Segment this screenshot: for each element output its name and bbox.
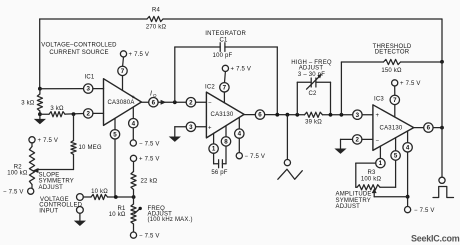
svg-text:IC1: IC1 bbox=[85, 75, 95, 81]
terminal +7.5V (22k top) bbox=[130, 155, 159, 162]
terminal square output bbox=[439, 128, 445, 184]
label Io current bbox=[150, 91, 165, 105]
svg-text:*: * bbox=[132, 95, 135, 104]
node M bbox=[440, 126, 444, 130]
svg-text:CA3080A: CA3080A bbox=[107, 100, 134, 106]
svg-text:+ 7.5 V: + 7.5 V bbox=[129, 52, 150, 58]
pin 6 output (IC1) bbox=[141, 98, 186, 107]
svg-text:6: 6 bbox=[152, 99, 156, 106]
svg-text:− 7.5 V: − 7.5 V bbox=[139, 233, 160, 239]
node N bbox=[406, 195, 410, 199]
label integrator bbox=[205, 31, 246, 44]
svg-text:− 7.5 V: − 7.5 V bbox=[414, 208, 435, 214]
pin 2 (IC1) bbox=[84, 109, 104, 118]
svg-text:SeekIC.com: SeekIC.com bbox=[411, 233, 460, 243]
svg-text:ADJUST: ADJUST bbox=[39, 185, 64, 191]
svg-text:IC2: IC2 bbox=[205, 85, 215, 91]
potentiometer R3 100k bbox=[356, 170, 408, 197]
svg-text:ADJUST: ADJUST bbox=[336, 204, 361, 210]
pin 5 (IC3) bbox=[380, 138, 400, 188]
pin 4 (IC3) bbox=[403, 131, 412, 206]
terminal +7.5V (IC3 pin7) bbox=[392, 80, 421, 95]
svg-text:− 7.5 V: − 7.5 V bbox=[139, 141, 160, 147]
svg-text:1: 1 bbox=[379, 160, 383, 167]
svg-text:150 kΩ: 150 kΩ bbox=[381, 68, 402, 74]
pin 2 (IC3) bbox=[341, 135, 373, 144]
op-amp IC3 CA3130 bbox=[373, 97, 414, 151]
svg-text:10 kΩ: 10 kΩ bbox=[109, 212, 126, 218]
svg-text:2: 2 bbox=[189, 99, 193, 106]
svg-text:1: 1 bbox=[212, 146, 216, 153]
node K bbox=[340, 113, 344, 117]
node C bbox=[72, 112, 76, 116]
pin 7 (IC2) bbox=[220, 83, 229, 103]
op-amp IC2 CA3130 bbox=[205, 85, 244, 138]
svg-text:CURRENT SOURCE: CURRENT SOURCE bbox=[49, 50, 108, 56]
node E bbox=[114, 195, 118, 199]
node B bbox=[38, 112, 42, 116]
svg-text:100 kΩ: 100 kΩ bbox=[7, 170, 28, 176]
svg-text:SYMMETRY: SYMMETRY bbox=[336, 198, 372, 204]
svg-text:3: 3 bbox=[189, 124, 193, 131]
svg-text:−: − bbox=[376, 138, 380, 144]
op-amp IC1 CA3080A bbox=[85, 75, 142, 126]
terminal -7.5V (R1 bottom) bbox=[130, 232, 159, 239]
node A bbox=[38, 87, 42, 91]
pin 4 (IC1) bbox=[129, 107, 138, 140]
svg-text:7: 7 bbox=[223, 84, 227, 91]
resistor R4 270k bbox=[146, 8, 167, 31]
svg-text:(100 kHz MAX.): (100 kHz MAX.) bbox=[148, 217, 193, 223]
terminal input ground reference bbox=[77, 207, 84, 221]
terminal +7.5V (R2 top) bbox=[29, 137, 58, 144]
pin 4 (IC2) bbox=[235, 118, 244, 153]
ground bbox=[75, 221, 86, 226]
svg-text:22 kΩ: 22 kΩ bbox=[141, 179, 158, 185]
svg-text:8: 8 bbox=[224, 139, 228, 146]
svg-text:−: − bbox=[208, 101, 212, 107]
svg-text:SLOPE: SLOPE bbox=[39, 173, 60, 179]
svg-text:5: 5 bbox=[113, 131, 117, 138]
svg-text:6: 6 bbox=[427, 125, 431, 132]
pin 5 (IC1) bbox=[110, 119, 119, 197]
svg-text:C2: C2 bbox=[308, 91, 317, 97]
node H bbox=[286, 113, 290, 117]
svg-text:+ 7.5 V: + 7.5 V bbox=[38, 138, 59, 144]
svg-text:CA3130: CA3130 bbox=[380, 126, 403, 132]
svg-text:100 pF: 100 pF bbox=[213, 53, 233, 59]
potentiometer R2 100k bbox=[7, 143, 34, 188]
wire top feedback rail bbox=[40, 18, 442, 20]
svg-text:R4: R4 bbox=[152, 8, 161, 14]
svg-text:+ 7.5 V: + 7.5 V bbox=[231, 67, 252, 73]
triangle wave symbol bbox=[278, 169, 303, 179]
svg-text:DETECTOR: DETECTOR bbox=[375, 50, 410, 56]
resistor 22k bbox=[131, 162, 158, 205]
svg-text:− 7.5 V: − 7.5 V bbox=[3, 190, 24, 196]
label freq adjust bbox=[148, 206, 193, 223]
terminal -7.5V (IC3 pin4) bbox=[405, 207, 435, 214]
label threshold detector bbox=[373, 44, 412, 56]
node D (C1 tap) bbox=[173, 100, 177, 104]
resistor 3k horizontal bbox=[40, 106, 84, 117]
svg-text:+: + bbox=[376, 113, 380, 119]
svg-text:3 kΩ: 3 kΩ bbox=[50, 106, 64, 112]
svg-text:7: 7 bbox=[121, 68, 125, 75]
pin 7 (IC1) bbox=[118, 66, 127, 90]
svg-text:6: 6 bbox=[258, 112, 262, 119]
resistor 10 MEG bbox=[71, 114, 102, 169]
svg-text:INPUT: INPUT bbox=[39, 208, 58, 214]
terminal -7.5V (R2 bottom) bbox=[3, 188, 34, 196]
pin 2 (IC2) bbox=[186, 98, 206, 107]
svg-text:4: 4 bbox=[238, 131, 242, 138]
svg-text:10 MEG: 10 MEG bbox=[79, 145, 102, 151]
pin 3 (IC1) bbox=[84, 84, 104, 93]
svg-text:+ 7.5 V: + 7.5 V bbox=[400, 81, 421, 87]
pin 3 (IC2) bbox=[175, 122, 207, 131]
terminal -7.5V (IC1 pin4) bbox=[130, 140, 159, 147]
terminal triangle output bbox=[284, 115, 290, 166]
svg-text:10 kΩ: 10 kΩ bbox=[91, 189, 108, 195]
ground bbox=[335, 139, 346, 153]
pin 8 (IC2) bbox=[221, 126, 230, 164]
node I bbox=[295, 113, 299, 117]
label amplitude symmetry adjust bbox=[336, 192, 372, 210]
svg-text:7: 7 bbox=[393, 97, 397, 104]
svg-text:2: 2 bbox=[86, 111, 90, 118]
svg-text:SYMMETRY: SYMMETRY bbox=[39, 179, 75, 185]
svg-text:CA3130: CA3130 bbox=[211, 112, 234, 118]
svg-text:I: I bbox=[150, 91, 152, 98]
node G bbox=[275, 113, 279, 117]
svg-text:4: 4 bbox=[406, 144, 410, 151]
node L bbox=[440, 60, 444, 64]
terminal voltage controlled input bbox=[39, 194, 83, 215]
pin 1 (IC3) bbox=[356, 146, 385, 187]
svg-text:IC3: IC3 bbox=[374, 97, 384, 103]
capacitor 56pF bbox=[211, 160, 227, 176]
svg-text:INTEGRATOR: INTEGRATOR bbox=[205, 31, 246, 37]
svg-text:− 7.5 V: − 7.5 V bbox=[245, 154, 266, 160]
pin 1 (IC2) bbox=[209, 133, 219, 164]
svg-text:39 kΩ: 39 kΩ bbox=[305, 120, 322, 126]
svg-text:5: 5 bbox=[394, 153, 398, 160]
label voltage-controlled current source bbox=[41, 43, 117, 57]
svg-text:3: 3 bbox=[86, 86, 90, 93]
pin 6 output (IC3) bbox=[414, 123, 442, 132]
resistor 39k bbox=[305, 112, 353, 125]
svg-text:O: O bbox=[153, 93, 157, 98]
svg-text:VOLTAGE–CONTROLLED: VOLTAGE–CONTROLLED bbox=[41, 43, 117, 49]
wire node A to pin3 bbox=[40, 88, 84, 90]
svg-text:3: 3 bbox=[356, 112, 360, 119]
wire wiper of R2 bbox=[33, 168, 73, 172]
svg-text:+: + bbox=[208, 125, 212, 131]
label slope symmetry adjust bbox=[39, 173, 75, 191]
resistor 150k feedback bbox=[341, 59, 442, 114]
watermark SeekIC.com bbox=[411, 233, 460, 243]
svg-text:ADJUST: ADJUST bbox=[299, 65, 324, 71]
svg-text:3 kΩ: 3 kΩ bbox=[21, 101, 35, 107]
label high-freq adjust bbox=[291, 60, 332, 78]
node J bbox=[329, 113, 333, 117]
terminal +7.5V (IC1 pin7) bbox=[120, 51, 149, 66]
ground bbox=[35, 114, 46, 124]
svg-text:2: 2 bbox=[355, 137, 359, 144]
pin 7 (IC3) bbox=[390, 95, 399, 117]
wire right feedback rail bbox=[441, 19, 443, 128]
terminal -7.5V (IC2 pin4) bbox=[236, 153, 265, 160]
terminal +7.5V (IC2 pin7) bbox=[222, 65, 251, 82]
node F bbox=[132, 195, 136, 199]
svg-text:4: 4 bbox=[132, 120, 136, 127]
square wave symbol bbox=[433, 187, 454, 198]
svg-text:56 pF: 56 pF bbox=[211, 170, 227, 176]
svg-text:+ 7.5 V: + 7.5 V bbox=[139, 157, 160, 163]
wire left feedback drop bbox=[39, 19, 41, 89]
capacitor C2 trimmer bbox=[297, 74, 330, 115]
svg-text:270 kΩ: 270 kΩ bbox=[146, 25, 167, 31]
ground bbox=[170, 127, 181, 142]
resistor 3k vertical bbox=[21, 89, 42, 115]
pin 6 output (IC2) bbox=[244, 110, 304, 119]
svg-text:AMPLITUDE: AMPLITUDE bbox=[336, 192, 372, 198]
pin 3 (IC3) bbox=[353, 110, 373, 119]
potentiometer R1 10k freq adjust bbox=[109, 204, 142, 232]
svg-text:R3: R3 bbox=[367, 170, 376, 176]
capacitor C1 100pF bbox=[175, 43, 277, 115]
resistor 10k input bbox=[83, 189, 133, 200]
svg-text:100 kΩ: 100 kΩ bbox=[361, 177, 382, 183]
